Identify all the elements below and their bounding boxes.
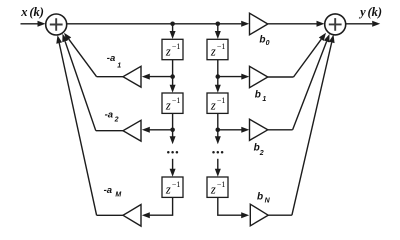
svg-text:b: b	[257, 192, 263, 203]
svg-text:−1: −1	[172, 96, 181, 105]
svg-text:z: z	[210, 182, 216, 196]
svg-text:x: x	[20, 5, 27, 19]
svg-text:-a: -a	[105, 110, 113, 121]
svg-text:z: z	[210, 45, 216, 59]
svg-text:z: z	[210, 98, 216, 112]
svg-text:2: 2	[114, 117, 119, 124]
svg-text:b: b	[255, 90, 261, 101]
svg-text:-a: -a	[104, 185, 112, 196]
svg-text:−1: −1	[217, 96, 226, 105]
svg-text:1: 1	[117, 63, 121, 70]
svg-text:z: z	[165, 98, 171, 112]
svg-text:1: 1	[262, 96, 266, 103]
svg-text:z: z	[165, 182, 171, 196]
svg-text:2: 2	[259, 150, 264, 157]
svg-text:y: y	[358, 5, 366, 19]
svg-text:b: b	[254, 143, 260, 154]
svg-text:−1: −1	[217, 180, 226, 189]
svg-text:−1: −1	[217, 42, 226, 51]
svg-text:z: z	[165, 45, 171, 59]
svg-text:0: 0	[266, 40, 270, 47]
svg-text:-a: -a	[107, 53, 115, 64]
svg-text:M: M	[115, 192, 121, 199]
svg-text:−1: −1	[172, 180, 181, 189]
svg-text:−1: −1	[172, 42, 181, 51]
svg-text:b: b	[259, 34, 265, 45]
svg-text:(k): (k)	[29, 5, 44, 19]
svg-text:(k): (k)	[368, 5, 383, 19]
